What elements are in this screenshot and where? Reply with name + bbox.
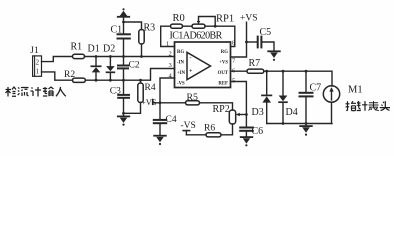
ground (below C4): [154, 136, 166, 145]
svg-text:J1: J1: [30, 46, 39, 56]
power port -VS: [183, 131, 189, 135]
头: [380, 101, 390, 111]
svg-text:OUT: OUT: [218, 71, 229, 76]
potentiometer RP2: [229, 110, 246, 124]
wire bottom input rail: [85, 69, 174, 81]
wire output rail to M1: [264, 71, 332, 86]
svg-text:C2: C2: [129, 61, 140, 71]
power port +VS (lower): [152, 100, 154, 105]
Chinese text 指针表头: [346, 101, 391, 111]
wire bottom right rail: [267, 123, 332, 125]
ground (below C6): [241, 137, 253, 146]
capacitor C1: [118, 34, 130, 56]
IC1 AD620BR box: [175, 42, 231, 88]
diode D2: [106, 57, 115, 81]
capacitor C6: [240, 128, 253, 137]
capacitor C5: [247, 37, 275, 51]
svg-text:C3: C3: [110, 87, 121, 97]
svg-text:-IN: -IN: [177, 61, 184, 66]
svg-text:2: 2: [36, 60, 40, 67]
svg-text:-VS: -VS: [177, 82, 185, 87]
svg-text:+VS: +VS: [141, 97, 157, 107]
diode D4: [279, 71, 288, 123]
svg-text:RP2: RP2: [213, 104, 230, 115]
svg-text:-: -: [190, 56, 192, 62]
IC pin numbers: [166, 40, 236, 85]
svg-text:C5: C5: [260, 27, 272, 38]
wire J1 pin1 to R2: [42, 72, 73, 80]
svg-text:3: 3: [169, 62, 172, 69]
svg-text:+VS: +VS: [219, 61, 228, 66]
connector J1: [33, 56, 42, 76]
ground (below right rail): [300, 124, 312, 136]
svg-text:REF: REF: [218, 82, 228, 87]
ground (below C5): [268, 51, 280, 61]
capacitor C4: [154, 103, 166, 135]
svg-text:1: 1: [36, 68, 39, 75]
svg-text:+: +: [189, 69, 193, 75]
svg-text:IC1AD620BR: IC1AD620BR: [170, 31, 223, 42]
svg-text:R5: R5: [187, 92, 199, 103]
流: [18, 88, 20, 96]
J1 pin numbers: [36, 60, 40, 76]
op-amp triangle: [187, 52, 211, 79]
wire top input rail: [85, 56, 175, 58]
wire +VS rail to R5 and RP2: [153, 103, 233, 110]
指: [346, 101, 350, 110]
svg-text:RG: RG: [177, 50, 184, 55]
svg-text:D1: D1: [88, 44, 100, 55]
IC inside pin labels: [177, 50, 229, 87]
resistor R1: [73, 54, 85, 58]
node pin4 branch: [159, 101, 162, 104]
resistor R0: [171, 24, 183, 28]
wire pin4 to branch: [160, 78, 175, 103]
svg-text:RP1: RP1: [216, 14, 234, 25]
meter M1: [323, 86, 339, 124]
svg-text:2: 2: [169, 51, 172, 58]
wire J1 pin2 to R1: [42, 57, 73, 62]
potentiometer RP1: [192, 17, 215, 29]
svg-text:R2: R2: [64, 70, 75, 80]
resistor R6: [186, 124, 232, 137]
入: [56, 87, 66, 96]
svg-text:C4: C4: [166, 115, 177, 125]
resistor R4: [124, 79, 144, 114]
svg-text:M1: M1: [348, 85, 363, 96]
junction dots top input rail: [95, 21, 308, 125]
capacitor C3: [118, 80, 129, 113]
junction dots right rails: [265, 70, 268, 73]
resistor R7: [247, 69, 264, 73]
diode D3: [262, 71, 271, 123]
svg-text:D2: D2: [103, 44, 115, 55]
wire R0 to RP1: [183, 25, 193, 27]
svg-text:7: 7: [232, 58, 236, 65]
svg-text:-VS: -VS: [181, 121, 196, 131]
svg-text:C1: C1: [111, 25, 123, 36]
wire pin6 to R7: [231, 70, 248, 72]
svg-text:+IN: +IN: [177, 71, 186, 76]
svg-text:8: 8: [232, 40, 235, 47]
Chinese text 检流计输入 (hand drawn strokes): [6, 87, 66, 97]
表: [369, 101, 379, 111]
针: [357, 101, 361, 110]
wire pin5 to RP2 rail and C6: [231, 82, 247, 128]
ground (below C3/R4 node): [118, 113, 130, 125]
wire pin1 to R0: [161, 26, 175, 46]
diode D1: [91, 57, 100, 81]
svg-text:R6: R6: [204, 124, 215, 134]
svg-text:R4: R4: [145, 83, 156, 93]
svg-text:1: 1: [166, 41, 169, 48]
检: [6, 87, 12, 97]
svg-text:R0: R0: [173, 13, 185, 24]
resistor R2: [73, 78, 86, 82]
svg-text:+VS: +VS: [240, 14, 258, 24]
svg-text:D4: D4: [286, 107, 298, 118]
wire RP1 to pin8: [205, 26, 235, 46]
ground (up-facing, above C1): [118, 8, 129, 17]
svg-text:R3: R3: [144, 23, 156, 34]
capacitor C2: [118, 57, 128, 81]
wire ground to C1 / R3 tee: [124, 17, 142, 34]
resistor R5: [186, 101, 200, 105]
svg-text:5: 5: [232, 78, 235, 85]
junction dots bottom input rail: [95, 79, 98, 82]
capacitor C7: [300, 71, 313, 123]
svg-text:C7: C7: [310, 83, 322, 94]
svg-text:D3: D3: [252, 107, 264, 118]
svg-text:C6: C6: [252, 126, 264, 137]
wire pin7 to +VS: [231, 22, 247, 57]
输: [43, 87, 47, 96]
svg-text:RG: RG: [221, 50, 228, 55]
resistor R3: [139, 30, 144, 57]
svg-text:R7: R7: [249, 58, 261, 69]
node C3/R4 junction: [122, 112, 125, 115]
svg-text:R1: R1: [71, 42, 83, 53]
计: [31, 88, 34, 97]
